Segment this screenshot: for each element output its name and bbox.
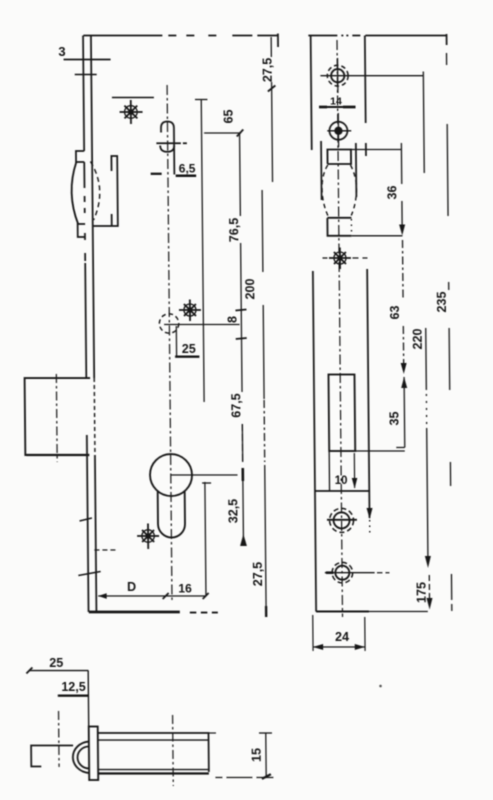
latch roller section outer arc xyxy=(73,742,89,774)
euro cylinder stem xyxy=(158,491,185,537)
dimension 15 line xyxy=(259,733,272,779)
svg-text:200: 200 xyxy=(243,279,257,300)
hidden case bottom dashes xyxy=(94,549,115,551)
svg-text:235: 235 xyxy=(435,292,449,313)
dimension 10 text xyxy=(335,475,348,487)
bottom view: dimension 25 text xyxy=(49,656,63,670)
dimension 76,5 text xyxy=(227,218,241,242)
dimension 12,5 text xyxy=(61,680,86,694)
dimension 65 text xyxy=(222,110,236,124)
svg-text:175: 175 xyxy=(415,582,429,603)
dimension 32,5 text xyxy=(226,499,240,523)
dimension 25 text xyxy=(182,342,196,356)
svg-text:32,5: 32,5 xyxy=(226,499,240,523)
dimension 220 text xyxy=(411,329,425,350)
dimension 65 line xyxy=(204,130,243,137)
svg-text:76,5: 76,5 xyxy=(227,218,241,242)
svg-text:14: 14 xyxy=(330,96,342,108)
dimension 200 / 27,5 bottom line xyxy=(262,190,266,617)
left view: faceplate top edge line xyxy=(83,34,278,48)
slot bottom extension xyxy=(329,451,405,491)
screw hole S1 right view xyxy=(320,58,423,93)
screw hole S3 right view xyxy=(327,508,357,532)
screw hole S2 right view xyxy=(327,113,351,147)
cylinder slot xyxy=(328,375,355,452)
svg-text:25: 25 xyxy=(182,342,196,356)
screw star S1 left view xyxy=(119,100,142,124)
dimension 35 line xyxy=(396,377,408,448)
plate centerline xyxy=(337,40,342,617)
latch bottom guide xyxy=(78,224,86,237)
dimension 200 text xyxy=(243,279,257,300)
dimension D text xyxy=(127,580,136,594)
rear case box xyxy=(25,378,91,455)
screw star S3 left view xyxy=(137,524,159,550)
plate right edge / dim 63 line xyxy=(362,36,373,534)
hidden case top edge dashes xyxy=(112,97,154,99)
plate left edge xyxy=(311,36,316,612)
dimension 12,5 line xyxy=(58,695,89,697)
svg-text:12,5: 12,5 xyxy=(61,680,86,694)
latch hook feature xyxy=(156,122,187,175)
screw star S5 right view xyxy=(322,248,367,270)
lock case section outline xyxy=(98,733,209,774)
dimension 16 text xyxy=(178,582,192,596)
svg-text:15: 15 xyxy=(250,748,264,762)
dimension 6,5 underline xyxy=(176,174,197,177)
chain dimension line B xyxy=(234,133,249,546)
svg-text:6,5: 6,5 xyxy=(179,162,196,176)
dimension 25 underline xyxy=(175,356,199,358)
dimension 24 line xyxy=(313,644,365,650)
chain dimension line A xyxy=(195,100,212,596)
lock centerline (cylinder axis, vertical dash-dot) xyxy=(167,85,172,600)
faceplate bottom edge xyxy=(89,611,218,614)
svg-text:8: 8 xyxy=(226,316,240,323)
dimension 14 line xyxy=(319,106,356,108)
dimension 61,5 text xyxy=(229,393,243,417)
screw hole S4 right view xyxy=(325,562,390,583)
extension to faceplate xyxy=(87,671,90,729)
right view: plate top edge xyxy=(308,34,446,45)
dimension D line xyxy=(98,593,209,599)
dimension 6,5 tick xyxy=(151,173,162,175)
dimension 35 text xyxy=(387,412,401,426)
svg-text:27,5: 27,5 xyxy=(251,562,265,586)
svg-text:3: 3 xyxy=(58,44,65,59)
dimension 220 line xyxy=(420,72,431,569)
plate lower section top edge xyxy=(315,490,370,492)
latch housing bracket xyxy=(91,156,117,226)
door edge centerline xyxy=(58,711,61,767)
dimension 3 line xyxy=(64,60,111,75)
svg-text:27,5: 27,5 xyxy=(261,58,275,82)
svg-text:65: 65 xyxy=(222,110,236,124)
latch roller left arc xyxy=(71,162,78,224)
dimension 235 text xyxy=(435,292,449,313)
svg-text:16: 16 xyxy=(178,582,192,596)
svg-text:35: 35 xyxy=(387,412,401,426)
strike bracket xyxy=(31,746,73,767)
dimension 15 extension stubs xyxy=(208,733,273,778)
dimension 175 text xyxy=(415,582,429,603)
latch head front view xyxy=(327,150,352,236)
svg-text:25: 25 xyxy=(49,656,63,670)
stray scan dot xyxy=(379,685,382,688)
screw position ticks on faceplate xyxy=(78,518,101,576)
svg-text:67,5: 67,5 xyxy=(229,393,243,417)
dimension 3 text xyxy=(58,44,65,59)
latch roller right arc (hidden) xyxy=(90,162,100,221)
dimension 63 line xyxy=(399,240,406,374)
latch top extension line xyxy=(351,149,402,151)
plate bottom edge xyxy=(316,611,428,613)
euro cylinder circle xyxy=(150,454,192,496)
dimension 25 line xyxy=(26,668,88,674)
dimension 25 leader xyxy=(175,326,177,357)
dimension 63 text xyxy=(388,306,402,320)
dimension 175 line xyxy=(426,575,432,610)
dimension 10 line xyxy=(352,453,358,489)
dimension 14 text xyxy=(330,96,342,108)
dimension 8 extension line xyxy=(164,324,240,326)
cylinder center extension line xyxy=(171,474,238,476)
dimension 235 line xyxy=(447,53,452,611)
hidden hole circle (dashed) xyxy=(159,314,179,333)
faceplate bar section xyxy=(89,727,99,781)
latch bottom extension line xyxy=(352,235,403,237)
latch top guide xyxy=(76,151,84,162)
svg-text:D: D xyxy=(127,580,136,594)
latch barrel hidden arcs xyxy=(322,165,357,235)
dimension 36 line xyxy=(398,143,405,236)
latch cutout edges xyxy=(321,141,356,200)
dimension 27,5 top text xyxy=(261,58,275,82)
dimension 8 text xyxy=(226,316,240,323)
dimension 24 text xyxy=(335,630,349,644)
screw star S2 left view xyxy=(179,300,201,322)
cylinder axis centerline in section xyxy=(172,715,175,786)
svg-text:24: 24 xyxy=(335,630,349,644)
faceplate left edge xyxy=(83,36,88,613)
svg-text:36: 36 xyxy=(385,186,399,200)
dimension 27,5 bottom text xyxy=(251,562,265,586)
faceplate right edge xyxy=(91,36,96,613)
svg-text:63: 63 xyxy=(388,306,402,320)
latch roller section inner arc xyxy=(77,747,89,769)
dimension 6,5 text xyxy=(179,162,196,176)
dimension 24 extension lines xyxy=(313,615,365,651)
dimension 27,5 top line xyxy=(267,37,276,182)
svg-text:10: 10 xyxy=(335,475,348,487)
dimension 36 text xyxy=(385,186,399,200)
svg-text:220: 220 xyxy=(411,329,425,350)
box centerline xyxy=(55,374,58,462)
dimension 15 text xyxy=(250,748,264,762)
